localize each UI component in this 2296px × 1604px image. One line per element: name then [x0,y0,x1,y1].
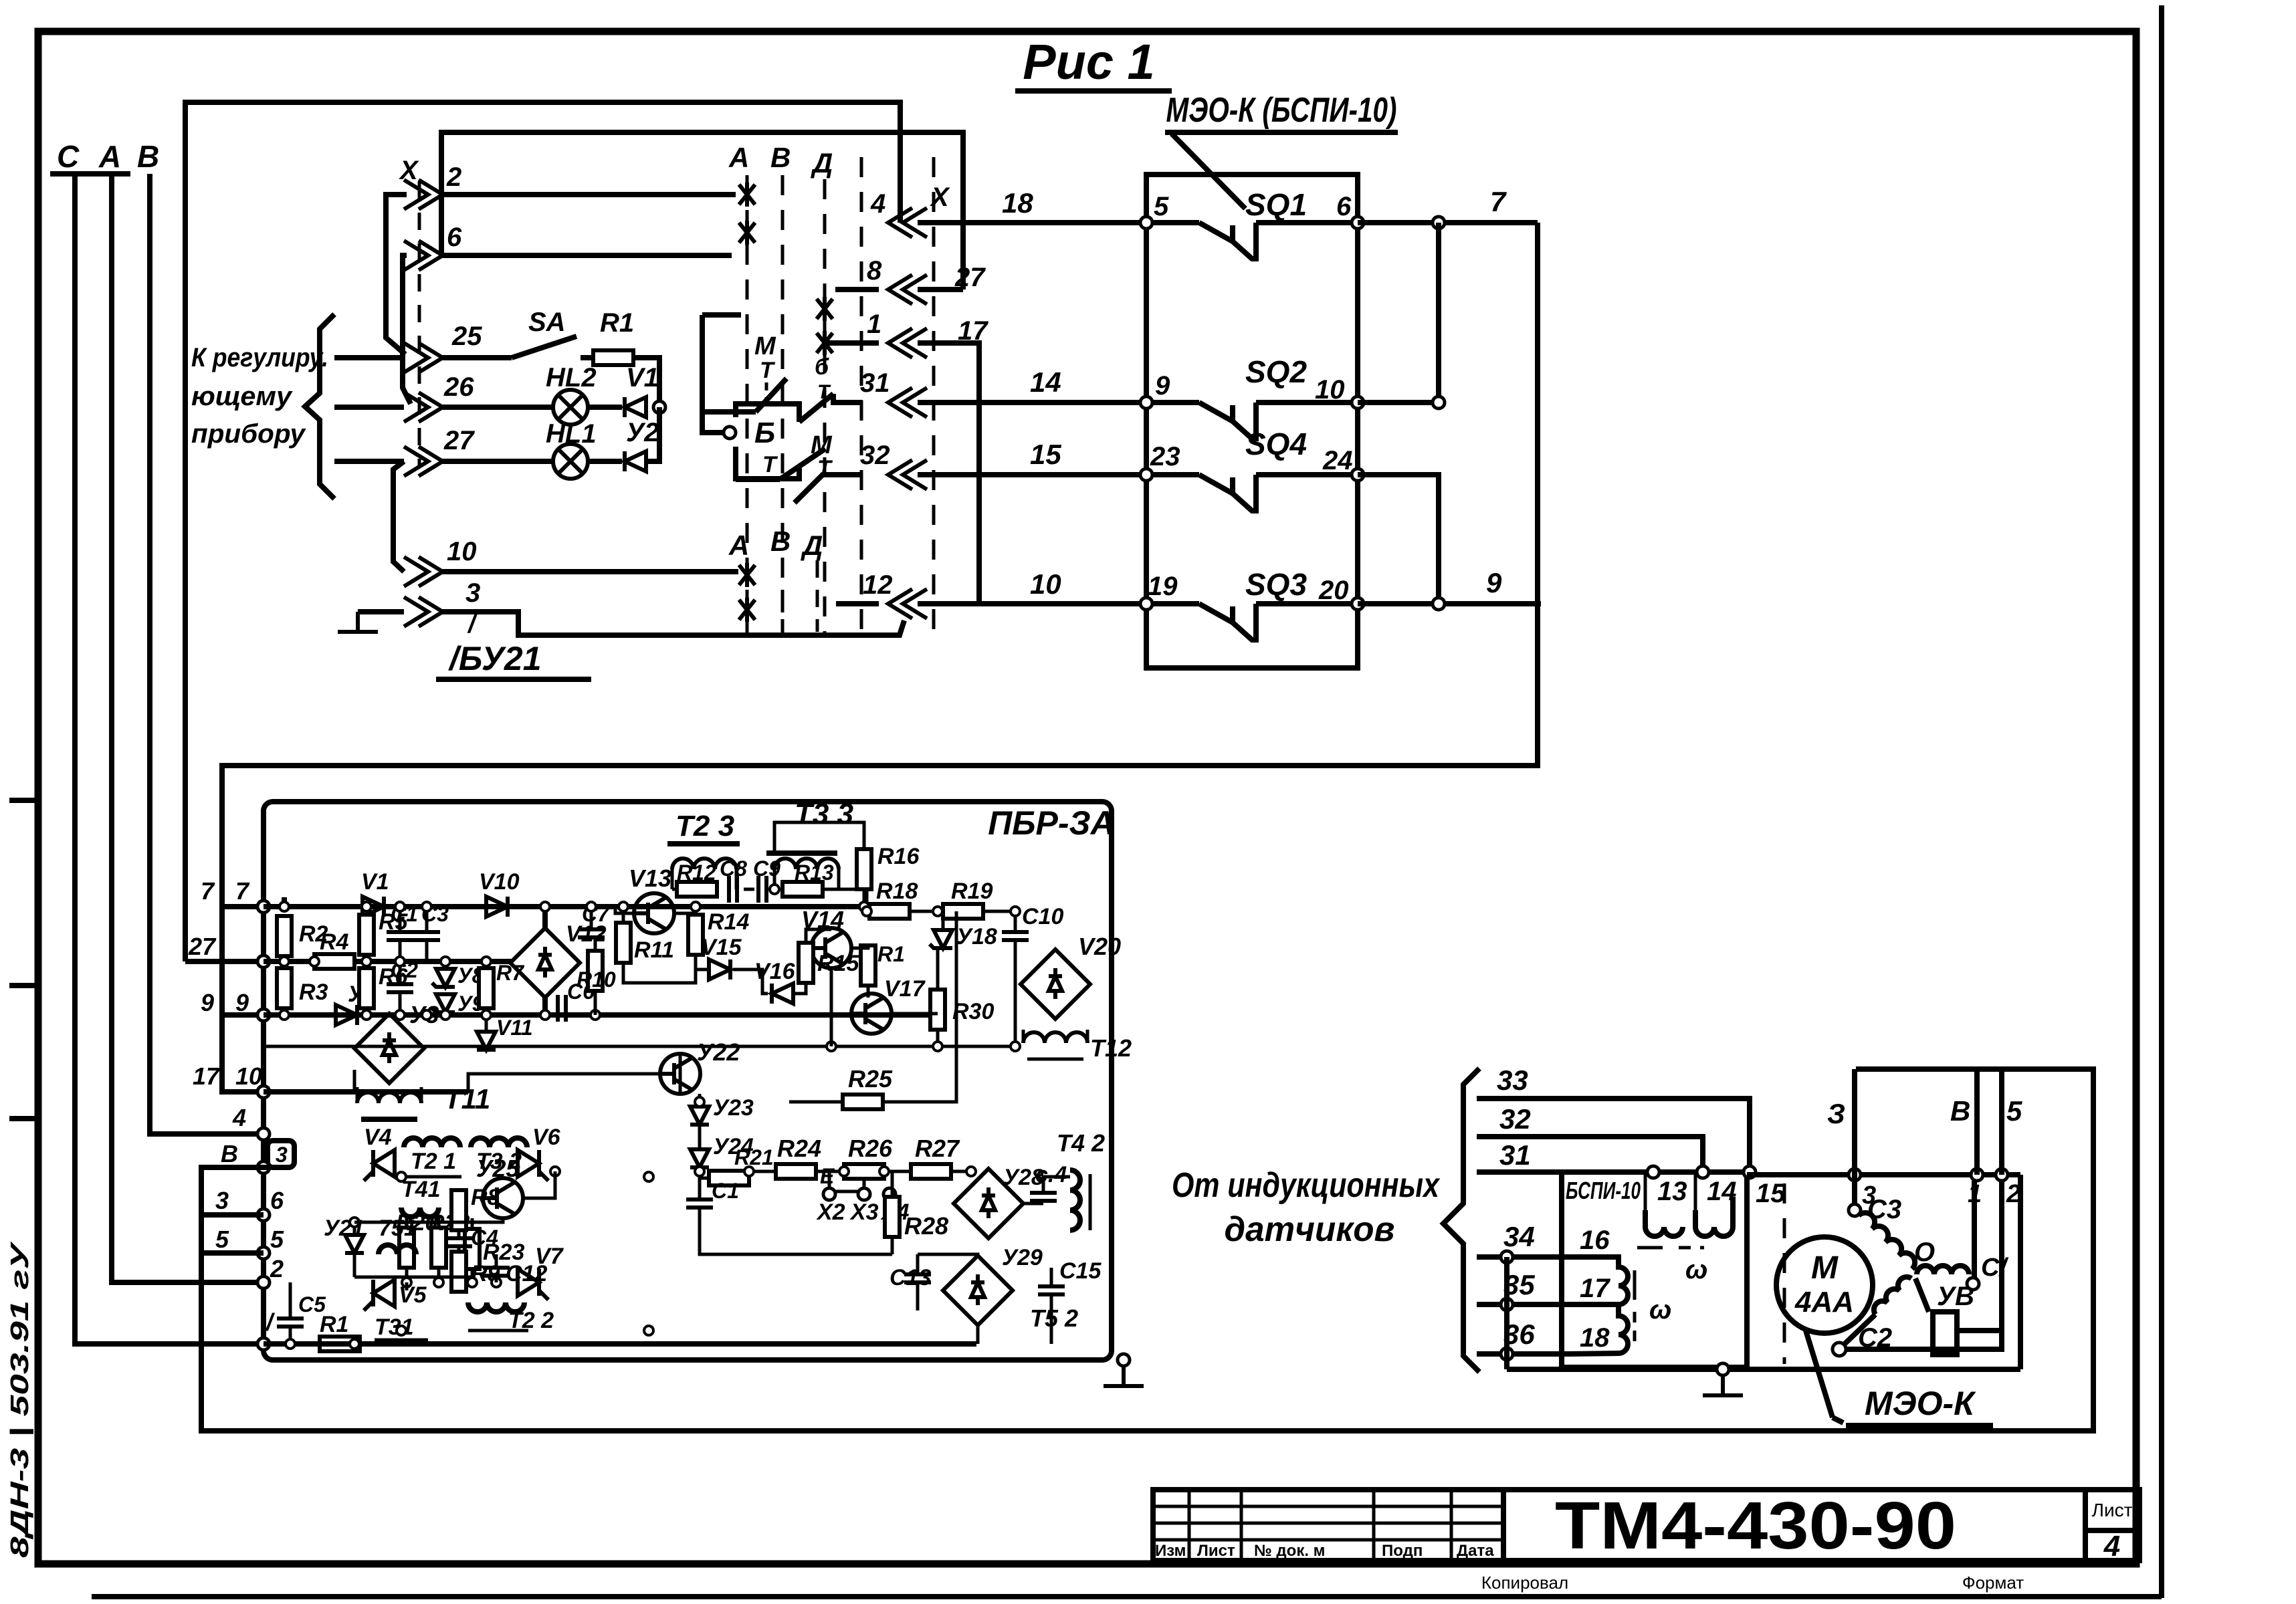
sheet cell Лист [2085,1490,2140,1563]
svg-text:15: 15 [1756,1179,1786,1208]
svg-text:ПБР-ЗА: ПБР-ЗА [988,804,1115,842]
svg-text:19: 19 [1148,572,1178,601]
capacitor C5 [277,1282,326,1344]
zener V18 [930,911,997,949]
wire row 10 [443,569,738,574]
svg-text:ющему: ющему [191,382,293,411]
frame tick mark 2 [9,983,38,988]
pin box 3 [268,1141,294,1167]
МЭО ground [1703,1363,1743,1395]
bottom rail inside [264,1341,976,1347]
svg-text:V1: V1 [361,869,389,895]
switch SQ4 [1140,427,1364,511]
wire row 1 left stub [825,340,879,346]
feeder stub 27 [334,459,404,464]
resistor R19 [943,879,993,919]
svg-text:В: В [1950,1095,1970,1127]
svg-text:МЭО-К (БСПИ-10): МЭО-К (БСПИ-10) [1166,91,1397,130]
БСПИ bottom rail [1507,1367,2020,1372]
title: МЭО-К (БСПИ-10) [1165,91,1398,209]
capacitor C8 [720,856,747,903]
svg-text:7: 7 [235,877,250,905]
resistor R10 [577,937,616,992]
resistor R21 [700,1145,774,1185]
svg-text:МЭО-К: МЭО-К [1865,1385,1976,1422]
title block small captions [1155,1542,1494,1560]
svg-text:У22: У22 [697,1038,740,1066]
capacitor C7 [578,902,611,937]
connector pin 32/15 arrow [860,441,927,489]
svg-text:Т3 3: Т3 3 [795,798,853,830]
svg-text:R8: R8 [471,1185,500,1210]
SQ box outline [1146,175,1358,668]
svg-text:R1: R1 [877,942,905,966]
svg-text:9: 9 [1486,567,1502,598]
wire 6-27 upper link [441,132,963,290]
svg-text:С8: С8 [720,856,747,881]
cable marker column А lower [728,530,755,632]
wire rail right drop [2018,1175,2023,1369]
svg-text:В: В [770,526,791,557]
svg-text:Д: Д [811,147,833,179]
resistor R18 [869,879,918,919]
wire phase A vertical [112,174,264,1282]
wire 32 [1477,1103,1703,1172]
diode V21 [324,1216,364,1277]
motor М 4АА [1776,1237,1873,1333]
resistor R15 [799,943,859,983]
svg-text:Б: Б [754,417,775,449]
junction 26 [653,401,665,413]
svg-text:УВ: УВ [1937,1282,1974,1311]
svg-text:У23: У23 [713,1095,754,1121]
diode V15 [696,935,742,980]
wire stub 5-5 [201,1250,264,1256]
wire б riser [2002,1069,2022,1175]
wire SQ4 to SQ3 link [1358,475,1439,604]
motor stator winding С3-О [1859,1213,1915,1269]
wire row 27 [443,459,553,464]
svg-text:17: 17 [193,1062,221,1090]
sheet edge line right [2159,5,2164,1598]
cable marker column Д upper [811,147,833,635]
capacitor C13 [890,1254,931,1310]
svg-text:С/: С/ [1981,1254,2008,1282]
zener V8 [432,961,484,988]
terminals Х2 Х3 Х4 [816,1164,910,1225]
wire 14 [918,366,1146,403]
wire V3 bridge [264,1001,439,1092]
resistor R25 [789,911,956,1109]
svg-text:2: 2 [446,162,461,192]
wire R1 to junction [633,358,659,407]
contact Б with box [702,315,863,479]
terminal С3 [1849,1175,1901,1224]
svg-text:R1: R1 [600,308,634,338]
svg-text:R10: R10 [577,967,616,992]
svg-text:V11: V11 [496,1016,533,1040]
transformer T12 [1023,1030,1132,1062]
БСПИ-10 box [1562,1172,1747,1367]
svg-text:10: 10 [235,1062,262,1090]
contact М lower [736,431,863,503]
svg-text:6: 6 [447,223,462,252]
cable bundle dashed boundary 1 [860,157,863,635]
resistor R4 [314,929,354,969]
svg-text:Т11: Т11 [444,1083,490,1115]
thyristor V4 [364,1125,395,1181]
cable bundle dashed boundary 2 [932,157,936,635]
svg-text:12: 12 [863,570,893,600]
svg-text:10: 10 [447,537,477,566]
connector pin 26 arrow [404,372,474,422]
rail 7 inside [264,904,869,909]
wire 18 [918,187,1146,223]
svg-text:Изм: Изм [1155,1542,1186,1560]
svg-text:Т2 1: Т2 1 [411,1149,456,1174]
svg-text:Т4 2: Т4 2 [1057,1129,1105,1157]
svg-text:32: 32 [1499,1103,1531,1135]
zener V9 [432,992,484,1016]
wire T23-T33 link [744,888,754,891]
svg-text:V4: V4 [364,1125,392,1150]
connector pin 6 arrow [404,223,462,270]
svg-text:А: А [728,142,749,173]
winding О-С2 [1833,1277,1911,1356]
thyristor V6 [518,1125,561,1181]
transistor V22 [660,1038,740,1094]
transformer Т2 2 [468,1302,554,1333]
diode V2 [625,418,659,471]
feeder link 6-25 [403,255,411,404]
diode V23 [690,1094,754,1125]
transistor V13 [629,865,674,933]
svg-text:В: В [770,142,791,173]
svg-text:R15: R15 [817,951,859,976]
svg-text:20: 20 [1318,576,1349,605]
wire row 26 [443,405,553,410]
wire pin9 stub [222,1012,264,1018]
svg-text:Т: Т [762,452,778,477]
resistor R13 [782,861,834,897]
svg-text:Т5 2: Т5 2 [1030,1304,1078,1332]
wire 36 [1477,1319,1568,1354]
capacitor C15 [1038,1258,1102,1319]
resistor R17 [861,942,905,986]
svg-text:Т3 2: Т3 2 [476,1149,522,1174]
svg-text:27: 27 [188,933,217,960]
svg-text:б: б [815,354,829,380]
resistor R23 [465,1218,524,1282]
wire С2 rail [1846,1331,2002,1349]
svg-text:32: 32 [860,441,890,470]
svg-text:4АА: 4АА [1794,1286,1854,1319]
winding 13-14 [1637,1197,1733,1284]
frame tick mark 3 [9,1116,38,1121]
wire SQ2 to SQ1 link [1358,223,1445,409]
svg-text:R21: R21 [734,1145,774,1169]
resistor R1 (lamp branch) [593,308,634,365]
transistor V25 [476,1155,523,1218]
bridge V12 [510,907,607,1015]
svg-text:БСПИ-10: БСПИ-10 [1566,1177,1641,1204]
bridge V20 [1021,933,1121,1019]
main rail 15-3-1-2 [1747,1172,2020,1177]
svg-text:6: 6 [1336,192,1352,221]
svg-text:9: 9 [201,989,214,1016]
pin 13 [1645,1166,1687,1210]
thyristor V7 [518,1244,564,1300]
svg-text:23: 23 [1150,442,1180,471]
svg-text:4: 4 [2103,1530,2120,1563]
wire С1 to rail 2 [1999,1181,2004,1331]
wire row 6 [443,253,732,258]
thyristor V5 [364,1280,427,1310]
svg-text:R1: R1 [320,1312,348,1337]
resistor R5 [359,909,409,955]
svg-text:1: 1 [867,310,881,339]
БУ21 box top edge wire [185,102,900,961]
svg-text:О: О [1914,1238,1935,1267]
brace to regulator [305,314,334,499]
svg-text:Х2: Х2 [816,1199,845,1225]
svg-text:Т2 3: Т2 3 [675,810,734,842]
diode V2 [336,982,376,1025]
title: Рис 1 [1015,34,1172,91]
sensor feed vertical [1504,1257,1509,1369]
title block revision table [1153,1490,1503,1561]
switch SQ3 [1140,567,1364,640]
svg-text:5: 5 [1154,192,1169,221]
svg-text:5: 5 [270,1226,284,1253]
cable marker column В lower [770,526,791,635]
title block main cell [1503,1490,2085,1561]
resistor R20 [396,1210,437,1282]
lamp HL1 [546,419,597,479]
resistor R16 [774,822,920,907]
svg-text:R24: R24 [777,1135,821,1162]
svg-text:7: 7 [201,877,215,905]
svg-text:Т12: Т12 [1090,1034,1132,1062]
cable marker column А upper [728,142,755,635]
bracket column at ЛБР inputs [222,907,264,1092]
transformer windings Т2 3 [667,810,740,889]
feeder link 27-10 [393,461,404,572]
diode V24 [690,1125,754,1167]
diode V1 [361,869,389,917]
svg-text:С15: С15 [1059,1258,1102,1284]
resistor R3 [277,968,328,1015]
capacitor C1 [387,902,418,961]
svg-text:датчиков: датчиков [1225,1210,1395,1249]
wire row 8 stub [918,287,963,292]
connector pin 8/27 arrow [867,256,986,304]
МЭО-К label with leader [1806,1331,1993,1425]
rail 9 inside [264,1012,938,1018]
svg-text:R13: R13 [795,861,834,885]
wire С1 drop [1972,1181,1977,1278]
svg-text:15: 15 [1030,439,1061,470]
svg-text:31: 31 [860,368,890,398]
transformer Т2 1 [401,1138,461,1177]
svg-text:№ док. м: № док. м [1254,1542,1325,1560]
feeder link 2-26 [386,195,407,354]
rail 10 inside [264,1089,468,1095]
svg-text:R26: R26 [848,1135,893,1162]
svg-text:НL1: НL1 [546,419,597,449]
resistor R22 [428,1210,469,1282]
diode V11 [477,1016,533,1050]
svg-text:8ДН-3 | 503.91 гУ: 8ДН-3 | 503.91 гУ [6,1240,34,1558]
svg-text:Рис 1: Рис 1 [1023,34,1154,90]
svg-text:С1: С1 [712,1179,739,1203]
svg-text:Лист: Лист [2092,1500,2133,1520]
connector pin 2 arrow [404,162,461,209]
diode V10 [479,869,520,917]
svg-text:Д: Д [801,530,823,561]
wire stub 3-6 [201,1212,264,1218]
transformer Т3 2 [471,1138,527,1174]
wire 7 long run down and left [222,223,1538,907]
capacitor C4 [445,1226,498,1250]
svg-text:ω: ω [1649,1295,1671,1325]
winding 16-17-18 [1568,1257,1671,1354]
switch SQ2 [1140,354,1364,439]
pin 15 [1744,1166,1786,1208]
wire row 3 / БУ21 bottom [443,612,904,635]
svg-text:R4: R4 [320,929,349,955]
capacitor C14 [1030,1162,1067,1201]
transformer Т3 1 label [375,1314,428,1340]
motor section dashed boundary [1783,1183,1786,1364]
svg-text:2: 2 [270,1255,284,1282]
resistor R7 [479,961,525,1030]
svg-text:9: 9 [1155,371,1170,400]
svg-text:SQ4: SQ4 [1245,427,1307,461]
wire R19 to C10 [983,910,1015,913]
svg-text:16: 16 [1580,1226,1610,1255]
svg-text:У18: У18 [956,924,997,949]
rail junctions [1849,1169,2008,1181]
winding О-С1 [1917,1254,2008,1290]
svg-text:Т: Т [760,358,776,383]
switch SA [443,308,593,358]
pin 17 [1501,1274,1610,1310]
svg-text:Х: Х [930,183,950,212]
svg-text:Дата: Дата [1457,1542,1494,1560]
svg-text:В: В [221,1140,238,1167]
svg-text:24: 24 [1322,446,1353,475]
interior link wires [354,907,1070,1344]
БУ21 label [436,610,591,679]
transformer Т4 1 [401,1177,441,1217]
resistor R26 [816,1135,893,1179]
ЛБР ground [1104,1354,1144,1386]
svg-text:с.4: с.4 [1035,1162,1067,1187]
capacitor C2 [387,958,418,1015]
wire R13 right [823,889,867,907]
wire row 8 left stub [835,287,879,292]
svg-text:Х3: Х3 [849,1199,879,1225]
capacitor C10 [1002,904,1063,1046]
svg-text:Т41: Т41 [401,1177,441,1202]
wire В riser [1950,1069,1977,1175]
resistor R2 [277,897,328,961]
sensor brace [1443,1068,1479,1372]
frame tick mark 1 [9,798,38,803]
wire HL1-V2 [588,459,622,464]
svg-text:V17: V17 [884,976,926,1002]
connector pin 12 arrow [863,570,927,618]
svg-text:SQ3: SQ3 [1245,567,1307,602]
svg-text:ω: ω [1685,1255,1707,1284]
svg-text:26: 26 [443,372,474,402]
text От индукционных датчиков [1172,1166,1441,1249]
bridge V28 [954,1165,1044,1238]
svg-text:8: 8 [867,256,882,285]
interior junction nodes [280,885,1020,1349]
resistor R12 [677,861,717,897]
svg-text:18: 18 [1580,1323,1610,1353]
svg-text:R14: R14 [708,909,749,935]
switch SQ1 [1140,187,1364,259]
transistor V14 [801,906,851,968]
resistor R9 [451,1246,500,1292]
cable marker column Д lower [801,530,823,632]
wire 9 from SQ3 [1358,567,1541,610]
mid horizontal bus [264,1045,1015,1048]
svg-text:прибору: прибору [191,419,306,449]
svg-text:/БУ21: /БУ21 [448,640,542,677]
svg-text:5: 5 [215,1226,229,1253]
pin labels left column [188,877,284,1336]
diode V16 [754,959,796,1004]
svg-text:R16: R16 [877,844,920,869]
svg-text:Лист: Лист [1197,1542,1235,1560]
svg-text:А: А [98,139,121,174]
svg-text:27: 27 [443,426,475,455]
svg-text:С4: С4 [471,1226,498,1250]
capacitor С1 low [686,1178,739,1224]
svg-text:R28: R28 [904,1212,948,1240]
svg-text:А: А [728,530,749,561]
resistor R6 [359,964,409,1008]
svg-text:5: 5 [2006,1095,2022,1127]
svg-text:ТМ4-430-90: ТМ4-430-90 [1555,1488,1956,1563]
svg-text:17: 17 [1580,1274,1610,1303]
capacitor C12 [483,1261,547,1286]
rail 27 inside [264,959,513,964]
wire V22 collector [468,1074,660,1092]
svg-text:Копировал: Копировал [1481,1573,1568,1593]
svg-text:Формат: Формат [1962,1573,2024,1593]
wire 15 [918,439,1146,475]
svg-text:НL2: НL2 [546,363,597,392]
capacitor C9 [753,856,780,903]
resistor R28 [885,1171,948,1254]
wire 7 from SQ1 [1358,186,1538,229]
svg-text:С9: С9 [753,856,780,881]
svg-text:6: 6 [270,1187,284,1214]
svg-text:С13: С13 [890,1265,931,1290]
svg-text:С: С [57,139,80,174]
wire phase B vertical [150,174,264,1134]
svg-text:R18: R18 [876,879,918,904]
svg-text:R3: R3 [299,980,328,1005]
svg-text:V20: V20 [1078,933,1121,960]
lamp HL2 [546,363,597,425]
label underline [50,171,130,177]
